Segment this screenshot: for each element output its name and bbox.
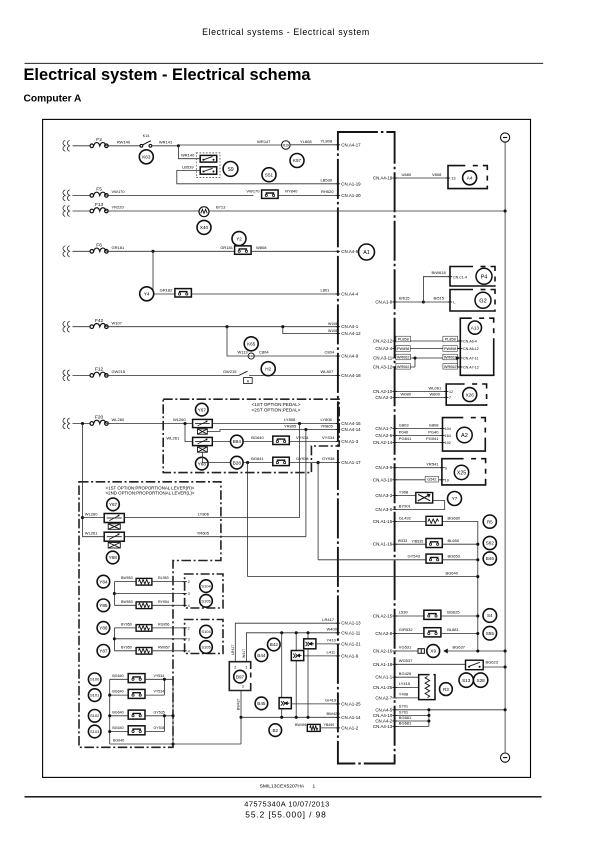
svg-text:GY938: GY938: [322, 456, 335, 461]
svg-text:3: 3: [188, 637, 190, 641]
svg-text:A1: A1: [363, 250, 370, 256]
svg-text:VYS34: VYS34: [296, 435, 309, 440]
svg-text:<1ST OPTION:PEDAL>: <1ST OPTION:PEDAL>: [252, 402, 301, 407]
pin 164 of A2: [440, 435, 444, 437]
pin CN.A2-7: [375, 695, 396, 700]
wire W060: [395, 396, 447, 398]
svg-text:CN.A1-18: CN.A1-18: [373, 662, 393, 667]
svg-text:L411: L411: [327, 650, 336, 655]
svg-text:CN.A1-14: CN.A1-14: [341, 715, 361, 720]
supply chevron F6: [63, 246, 70, 257]
wire WL261 supply: [185, 424, 193, 442]
junction S101/S100: [163, 678, 166, 681]
svg-text:VG531: VG531: [399, 645, 412, 650]
svg-text:S104: S104: [201, 629, 211, 634]
pin 4 of S104 box2: [182, 650, 186, 652]
wire code WR062 d: [443, 364, 458, 370]
pin CN.A1-20: [336, 193, 361, 198]
wire PW858: [395, 348, 461, 350]
junction F13/ground rail: [504, 209, 507, 212]
svg-text:CN.A4-13: CN.A4-13: [373, 724, 393, 729]
wire W107: [106, 326, 282, 328]
wire BW429: [241, 716, 338, 718]
svg-text:WR141: WR141: [159, 139, 173, 144]
svg-text:BG640: BG640: [112, 674, 123, 678]
svg-text:VYS34: VYS34: [322, 435, 335, 440]
wire Y410: [316, 643, 338, 645]
svg-text:104: 104: [445, 427, 451, 431]
connector X9: [427, 645, 440, 658]
svg-text:Y85: Y85: [99, 603, 108, 608]
svg-text:L: L: [453, 301, 455, 305]
svg-text:G/R532: G/R532: [399, 627, 414, 632]
connector BG641/GY938: [273, 457, 290, 465]
connector VW170/RY840: [262, 190, 279, 198]
svg-text:1: 1: [313, 783, 316, 789]
svg-text:YL808: YL808: [321, 139, 333, 144]
svg-text:B/W618: B/W618: [432, 270, 447, 275]
potentiometer Y67 pedal: [193, 419, 213, 427]
pin CN.A4-12: [336, 331, 361, 336]
svg-text:BG640: BG640: [112, 690, 123, 694]
sensor Y67 lever: [107, 498, 120, 511]
svg-text:LY808: LY808: [321, 417, 333, 422]
sensor Y68 pedal: [196, 457, 209, 470]
svg-text:RY954: RY954: [158, 600, 169, 604]
generator G2: [475, 292, 491, 308]
junction group drop bottom: [171, 742, 174, 745]
junction B615: [422, 300, 425, 303]
pin CN.A3-3: [375, 493, 396, 498]
pin CN.A2-12: [373, 339, 397, 344]
wire GL492: [395, 521, 426, 523]
connector S104 a: [200, 580, 213, 593]
svg-text:G2: G2: [479, 298, 486, 304]
pin 7 of X26: [444, 396, 448, 398]
svg-text:CN.A3-10: CN.A3-10: [373, 477, 393, 482]
pin CN.A4-14: [336, 427, 361, 432]
svg-text:Y410: Y410: [327, 638, 337, 643]
valve Y2: [232, 232, 246, 246]
svg-text:GW215: GW215: [112, 369, 126, 374]
pin CN.A3-6: [375, 507, 396, 512]
switch S4: [483, 609, 497, 623]
svg-text:F42: F42: [95, 318, 104, 324]
wire B/515: [423, 301, 450, 303]
coil Y87: [136, 648, 152, 655]
svg-text:CN.A4-10: CN.A4-10: [373, 713, 393, 718]
wire BL650: [442, 543, 478, 545]
svg-text:W800: W800: [430, 392, 441, 397]
connector X26: [463, 388, 477, 402]
coil Y84: [136, 578, 152, 585]
wire F42 feed: [73, 326, 91, 328]
pin CN.A4-6: [336, 249, 359, 254]
wire BG640 to S103: [110, 731, 129, 733]
sensor B44: [255, 649, 268, 662]
svg-text:W400: W400: [327, 627, 338, 632]
wire GR181: [106, 250, 234, 252]
wire to coil Y87: [114, 650, 136, 652]
wire WR140 drop: [178, 146, 200, 159]
svg-text:CN.A3-3: CN.A3-3: [375, 493, 392, 498]
svg-text:LB539: LB539: [321, 178, 333, 183]
wire F13 feed: [73, 210, 91, 212]
wire S100 out: [145, 678, 173, 680]
switch S55: [483, 626, 497, 640]
svg-text:BW953: BW953: [121, 600, 133, 604]
svg-text:W080: W080: [401, 392, 412, 397]
svg-text:PG041: PG041: [426, 436, 439, 441]
resistor R19: [282, 141, 291, 150]
device box X25: [442, 459, 486, 485]
resistor B2: [307, 724, 320, 731]
connector BL681: [424, 628, 441, 637]
svg-text:102: 102: [445, 441, 451, 445]
pin CN.A4-19: [373, 176, 397, 181]
connector GR182/L801: [175, 289, 192, 297]
svg-text:CN.A1-15: CN.A1-15: [373, 519, 393, 524]
junction F2/S9: [177, 144, 180, 147]
svg-text:Y7: Y7: [452, 496, 458, 501]
svg-text:BG640: BG640: [251, 435, 264, 440]
wire BW427: [240, 691, 242, 745]
valve Y84: [97, 575, 110, 588]
svg-text:K14: K14: [143, 134, 149, 138]
svg-text:RH520: RH520: [321, 189, 334, 194]
svg-text:S701: S701: [399, 704, 409, 709]
pin CN.A1-18: [373, 662, 397, 667]
switch S51: [262, 168, 276, 182]
wire YR605 riser: [305, 430, 307, 537]
valve Y87: [97, 645, 110, 658]
svg-text:CN.A1-11: CN.A1-11: [341, 630, 361, 635]
sensor B45: [255, 697, 268, 710]
fuse F20: [90, 415, 108, 426]
svg-text:F6: F6: [96, 243, 102, 249]
svg-text:CN.C1-4: CN.C1-4: [453, 275, 467, 279]
wire W113 branch: [227, 327, 248, 356]
switch B94: [231, 435, 244, 448]
svg-text:BY901: BY901: [399, 503, 412, 508]
connector S102: [128, 710, 145, 719]
wire P040: [395, 435, 443, 437]
svg-text:GY535: GY535: [154, 710, 165, 714]
svg-text:A2: A2: [461, 433, 468, 439]
svg-text:BG681: BG681: [399, 720, 412, 725]
svg-text:S104: S104: [201, 584, 211, 589]
junction BW429 a: [280, 716, 283, 719]
svg-text:CN.A2-3: CN.A2-3: [375, 395, 392, 400]
wire WR062 lower: [395, 366, 415, 368]
svg-text:B97: B97: [236, 674, 245, 679]
svg-text:BW491: BW491: [295, 723, 307, 727]
svg-text:WG537: WG537: [399, 658, 413, 663]
svg-text:C804: C804: [325, 350, 335, 355]
svg-text:<2ST OPTION:PEDAL>: <2ST OPTION:PEDAL>: [252, 408, 301, 413]
svg-text:V808: V808: [432, 172, 442, 177]
wire Y86 supply bus: [113, 628, 115, 651]
supply chevron F42: [63, 321, 70, 332]
pin CN.A2-16: [373, 649, 397, 654]
wire YR541: [395, 467, 443, 469]
connector GR181/W808: [235, 246, 252, 254]
wire L801: [191, 293, 338, 295]
wire B/W618: [423, 277, 450, 302]
svg-text:<1ST OPTION:PROPORTIONAL LEVER: <1ST OPTION:PROPORTIONAL LEVER(R)>: [106, 485, 195, 490]
svg-text:BW427: BW427: [237, 698, 241, 710]
svg-text:CN.A2-10: CN.A2-10: [373, 389, 393, 394]
svg-text:BL681: BL681: [447, 627, 459, 632]
svg-text:Y87: Y87: [99, 649, 108, 654]
junction WL260 lever: [81, 516, 84, 519]
junction S103/S102: [163, 714, 166, 717]
switch block S9 outline: [196, 153, 220, 178]
svg-text:CN.A1-25: CN.A1-25: [373, 685, 393, 690]
pin 104 of A2: [440, 428, 444, 430]
svg-text:LR417: LR417: [231, 645, 235, 655]
sensor Y67 pedal: [196, 403, 209, 416]
svg-text:W108: W108: [328, 329, 337, 333]
device box G2: [450, 290, 495, 312]
pin CN.A3-12: [373, 365, 397, 370]
svg-text:X25: X25: [457, 470, 466, 476]
pin 19 of X25: [440, 479, 444, 481]
svg-text:R5: R5: [487, 519, 493, 524]
wire to coil Y86: [114, 627, 136, 629]
pin CN.A4-18: [336, 373, 361, 378]
svg-text:RW957: RW957: [158, 645, 170, 649]
supply chevron F12: [63, 370, 70, 381]
pin CN.A3-11: [373, 356, 397, 361]
connector BG625: [424, 610, 441, 619]
svg-text:CN.A2-12: CN.A2-12: [373, 339, 393, 344]
wire BG653: [442, 559, 478, 561]
wire BG680: [442, 522, 478, 652]
diode K10: [248, 353, 254, 359]
schematic frame: [43, 119, 531, 777]
wire BG640 to S102: [110, 715, 129, 717]
svg-text:GR181: GR181: [112, 245, 125, 250]
svg-text:CN.A1-2: CN.A1-2: [341, 725, 358, 730]
junction BG640 bus S101: [108, 694, 111, 697]
svg-text:F13: F13: [95, 202, 104, 208]
svg-text:1: 1: [245, 665, 247, 669]
pin CN.A1-8: [375, 300, 396, 305]
svg-text:CN.A3-9: CN.A3-9: [375, 465, 392, 470]
svg-text:BG426: BG426: [399, 671, 412, 676]
svg-text:Y2: Y2: [236, 236, 242, 241]
svg-text:CN.A1-3: CN.A1-3: [341, 439, 358, 444]
pin CN.A1-3: [336, 439, 359, 444]
svg-text:U680: U680: [402, 172, 412, 177]
wire S101 riser: [163, 679, 165, 695]
svg-text:W533: W533: [398, 539, 407, 543]
svg-text:Y68: Y68: [109, 555, 118, 560]
wire WR062 upper: [395, 357, 461, 359]
ground symbol top: [501, 133, 510, 142]
potentiometer Y68 pedal: [193, 437, 213, 445]
pin CN.A1-15: [373, 519, 397, 524]
wire pin3 box2: [114, 638, 184, 640]
potentiometer Y67 lever: [104, 514, 124, 523]
svg-text:F20: F20: [95, 415, 104, 421]
pin CN.A1-2: [336, 725, 359, 730]
wire GW215: [106, 374, 239, 376]
wire BG681 a: [395, 720, 429, 722]
svg-text:R19: R19: [283, 143, 289, 147]
svg-text:VW170: VW170: [246, 189, 260, 194]
wire BL681: [441, 633, 478, 635]
svg-text:VY534: VY534: [154, 674, 165, 678]
pin CN.A2-10: [373, 389, 397, 394]
valve Y86: [97, 622, 110, 635]
junction BG640 bus S103: [108, 730, 111, 733]
svg-text:CN.A7-11: CN.A7-11: [463, 357, 479, 361]
svg-text:WR062: WR062: [397, 365, 410, 369]
wire L411: [304, 655, 338, 657]
pin CN.A2-15: [373, 614, 397, 619]
wire S701 a: [395, 709, 506, 711]
wire LB417: [235, 623, 338, 662]
pin CN.A1-16: [373, 542, 397, 547]
element K of Y67 pedal: [198, 429, 208, 434]
wire GY938 row: [202, 452, 338, 462]
svg-text:CN.A1-21: CN.A1-21: [341, 641, 361, 646]
pin CN.A1-25 right: [373, 685, 397, 690]
wire Y908: [395, 495, 416, 497]
svg-text:W417: W417: [242, 649, 246, 658]
junction W107 branch: [225, 325, 228, 328]
ECU computer A box: [338, 132, 395, 764]
wire BG625: [441, 615, 478, 617]
wire GR182 branch: [153, 251, 175, 294]
junction BG637 rail: [504, 649, 507, 652]
svg-text:BG623: BG623: [486, 659, 499, 664]
svg-text:Y67: Y67: [198, 407, 207, 412]
wire code G542: [425, 476, 439, 482]
wire RG956: [152, 627, 185, 629]
svg-text:W108: W108: [328, 322, 337, 326]
wire W400: [246, 633, 338, 662]
pin CN.A1-19: [336, 181, 361, 186]
wire RW957: [152, 650, 185, 652]
svg-text:CN.A2-14: CN.A2-14: [373, 440, 393, 445]
svg-text:S62: S62: [486, 541, 495, 546]
svg-text:X26: X26: [466, 392, 475, 397]
footer rule: [25, 796, 542, 798]
junction F6/Y4: [151, 250, 154, 253]
pin CN.A2-3: [375, 395, 396, 400]
svg-text:BG641: BG641: [251, 456, 264, 461]
wire BG623 out: [483, 666, 505, 668]
device box A13: [460, 318, 493, 375]
junction W108 split: [281, 325, 284, 328]
element K of Y67 lever: [108, 524, 120, 530]
svg-text:CN.A1-20: CN.A1-20: [341, 193, 361, 198]
pin CN.C1-4 of P4: [448, 276, 452, 278]
junction BG640 bus: [476, 575, 479, 578]
svg-text:LY806: LY806: [198, 511, 210, 516]
svg-text:CN.A2-15: CN.A2-15: [373, 614, 393, 619]
junction S701 rail: [504, 708, 507, 711]
svg-text:4: 4: [188, 604, 190, 608]
connector box S104/S105 second: [185, 620, 223, 654]
connector S101: [128, 689, 145, 698]
connector BG640/VYS34: [273, 436, 290, 444]
svg-text:A13: A13: [471, 325, 480, 330]
svg-text:X9: X9: [430, 649, 436, 654]
svg-text:F2: F2: [96, 137, 102, 143]
junction W400 a: [280, 631, 283, 634]
wire W533: [395, 543, 426, 545]
fuse F5: [90, 187, 108, 198]
wire WL260: [106, 423, 192, 425]
wire BG640 cross: [248, 576, 478, 578]
device A4: [463, 171, 477, 185]
switch B46: [483, 552, 496, 565]
svg-text:W808: W808: [256, 245, 267, 250]
pin CN.A1-1: [375, 675, 396, 680]
junction BG653 bus: [476, 558, 479, 561]
pin 2 of S104 box1: [182, 581, 186, 583]
svg-text:B94: B94: [233, 439, 242, 444]
wire VG531: [395, 650, 418, 652]
svg-text:PW858: PW858: [397, 347, 409, 351]
wire Gr419 down: [281, 709, 283, 718]
wire WL061: [395, 391, 447, 393]
wire V1 GY543 drop: [317, 463, 319, 560]
svg-text:S28: S28: [477, 678, 486, 683]
svg-text:B44: B44: [257, 653, 266, 658]
wire PL858: [395, 340, 461, 342]
wire BG640 to S100: [110, 678, 129, 680]
pin CN.A6-4 of A13: [458, 340, 462, 342]
pin CN.A4-2: [375, 719, 396, 724]
svg-text:K57: K57: [293, 158, 302, 163]
fuse F6: [90, 243, 108, 254]
svg-text:BG640: BG640: [112, 726, 123, 730]
wire YB490: [320, 727, 338, 729]
fuse F13: [90, 202, 108, 213]
svg-text:W113: W113: [238, 350, 249, 355]
op-amp, ECU designator A1: [359, 244, 375, 260]
pin 4 of S104 box1: [182, 604, 186, 606]
wire VY534 group drop: [172, 679, 174, 744]
svg-text:SMIL13CEX5207HA: SMIL13CEX5207HA: [260, 783, 305, 789]
wire BG681 b: [395, 725, 429, 727]
pin 12 of X26: [444, 391, 448, 393]
wire Gr419 drop: [281, 633, 283, 698]
svg-text:PL858: PL858: [398, 338, 409, 342]
sensor connector L411: [291, 651, 303, 661]
wire RW140: [106, 145, 140, 147]
svg-text:7: 7: [449, 396, 451, 400]
fuse F12: [90, 367, 108, 378]
wire BY901: [395, 501, 445, 510]
svg-text:CN.A4-12: CN.A4-12: [341, 331, 361, 336]
junction WR062 right: [456, 356, 459, 359]
svg-text:PW858: PW858: [444, 347, 456, 351]
relay K63: [139, 150, 153, 164]
pin CN.A4-5: [375, 707, 396, 712]
svg-text:RY840: RY840: [285, 189, 298, 194]
svg-text:BW429: BW429: [327, 711, 341, 716]
supply chevron F5: [63, 190, 70, 201]
svg-text:L801: L801: [321, 288, 331, 293]
svg-text:WR147: WR147: [257, 139, 271, 144]
wire GR532: [395, 633, 424, 635]
